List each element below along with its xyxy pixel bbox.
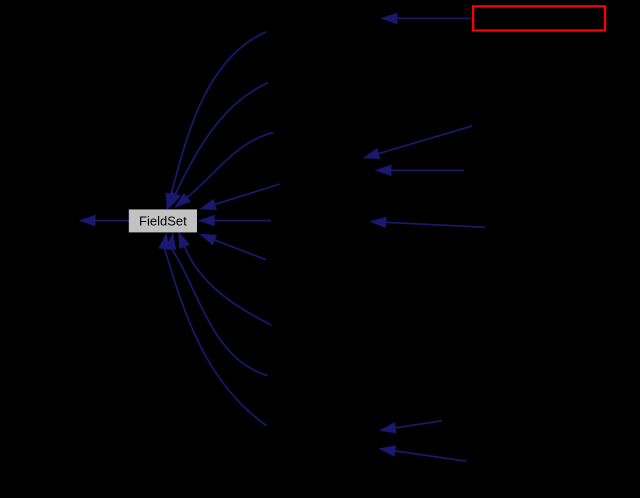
edge row8 node->FieldSet (curve) bbox=[166, 234, 268, 376]
edge right r1->mid node bbox=[364, 126, 472, 159]
edge right r5->mid node bbox=[380, 446, 466, 461]
node FieldSet bbox=[129, 209, 197, 232]
edge right r3->mid node bbox=[371, 217, 485, 227]
edge row2 node->FieldSet (curve) bbox=[169, 83, 268, 208]
node current (red highlighted) bbox=[473, 6, 605, 30]
edge red node->top node bbox=[382, 13, 472, 23]
edge right r2->mid node bbox=[376, 165, 464, 175]
edge row4 node->FieldSet (diagonal) bbox=[201, 184, 281, 209]
edge row7 node->FieldSet (curve) bbox=[179, 233, 272, 326]
edge row1 node->FieldSet (curve) bbox=[166, 32, 266, 209]
edge same-row node->FieldSet (horizontal) bbox=[199, 216, 271, 226]
edge row9 node->FieldSet (curve) bbox=[159, 234, 267, 426]
edge right r4->mid node bbox=[380, 421, 442, 433]
edge row3 node->FieldSet (curve) bbox=[175, 133, 273, 208]
edge FieldSet->left node bbox=[80, 216, 129, 226]
edge row6 node->FieldSet (diagonal) bbox=[201, 234, 267, 259]
svg-text:FieldSet: FieldSet bbox=[139, 214, 187, 229]
